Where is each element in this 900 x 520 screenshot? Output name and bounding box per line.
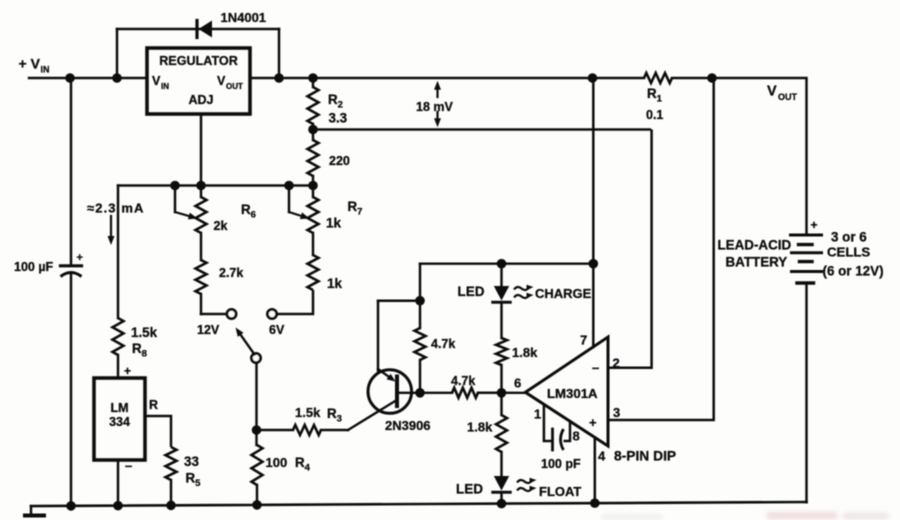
svg-text:–: –: [592, 360, 599, 375]
wire ADJ rail to R8: [117, 186, 120, 319]
svg-text:CELLS: CELLS: [827, 245, 870, 260]
svg-text:+: +: [77, 252, 83, 264]
wiper R6: [175, 186, 198, 220]
junction dot at VIN/diode branch: [112, 73, 122, 83]
svg-text:3: 3: [613, 405, 620, 420]
wire pin 3: [608, 78, 714, 420]
junction dot R6 wiper: [170, 181, 180, 191]
wiper R7: [289, 186, 310, 220]
svg-text:≈2.3 mA: ≈2.3 mA: [87, 201, 144, 216]
junction dot R1 right: [707, 73, 717, 83]
resistor R4 100: [252, 430, 263, 505]
watermark smudge: [601, 512, 889, 520]
arrow 18mV down: [436, 112, 438, 118]
svg-text:+: +: [811, 218, 818, 232]
resistor R3x 220: [308, 130, 319, 186]
junction dot op-amp output: [497, 388, 507, 398]
svg-text:8-PIN DIP: 8-PIN DIP: [614, 449, 676, 464]
svg-text:6: 6: [514, 376, 521, 391]
junction dot pin7 rail: [589, 259, 599, 269]
resistor R8 1.5k: [113, 318, 124, 378]
svg-text:+ V: + V: [19, 56, 41, 72]
svg-text:0.1: 0.1: [646, 108, 663, 122]
potentiometer R6 2k: [196, 186, 207, 261]
junction dot regulator Vout left: [274, 73, 284, 83]
node +VIN input wire: [29, 77, 147, 80]
switch pole: [251, 353, 260, 362]
terminal 6V: [267, 309, 276, 318]
wire pin 8: [564, 422, 571, 442]
LM334 box U3: [94, 378, 145, 460]
capacitor C2 100pF: [551, 429, 554, 450]
svg-text:LM301A: LM301A: [547, 386, 598, 401]
svg-text:3 or 6: 3 or 6: [831, 230, 867, 245]
wire diode loop left: [116, 29, 119, 78]
svg-text:1N4001: 1N4001: [221, 10, 267, 25]
svg-text:V: V: [152, 74, 161, 88]
resistor 1.8k upper: [496, 338, 507, 393]
resistor R1 0.1: [644, 73, 712, 83]
wire 100uF top: [70, 78, 73, 265]
resistor 1.8k lower: [496, 393, 507, 476]
wire emitter node up: [419, 264, 422, 301]
junction dot gnd pin4: [590, 498, 600, 508]
wire regulator output: [250, 77, 644, 80]
wire pin 2: [608, 130, 652, 368]
ground symbol: [25, 506, 44, 515]
svg-text:1.5k: 1.5k: [131, 325, 158, 340]
svg-text:1.5k: 1.5k: [295, 405, 321, 420]
svg-text:7: 7: [580, 333, 587, 348]
junction dot gnd 100uF: [66, 501, 76, 511]
svg-text:FLOAT: FLOAT: [539, 484, 581, 499]
resistor R5 33: [166, 447, 177, 505]
transistor Q1 2N3906 body: [368, 370, 412, 414]
wire ADJ rail: [118, 184, 313, 186]
battery BT1 plates: [791, 234, 822, 237]
resistor 4.7k horizontal: [452, 388, 502, 398]
svg-text:1: 1: [534, 407, 541, 422]
svg-text:–: –: [125, 458, 132, 473]
junction dot R7 wiper: [284, 181, 294, 191]
junction dot at VIN/100uF branch: [65, 73, 75, 83]
wire base lead: [397, 392, 452, 394]
svg-text:LED: LED: [458, 284, 485, 299]
wire Vout to battery: [712, 78, 807, 235]
arrow 18mV up: [436, 90, 438, 97]
svg-text:OUT: OUT: [226, 82, 243, 91]
junction dot gnd LM334: [113, 501, 123, 511]
wire LM334 R pin: [145, 416, 171, 447]
junction dot gnd R4: [252, 500, 262, 510]
svg-text:2: 2: [613, 356, 620, 371]
resistor R2 3.3: [308, 78, 319, 130]
junction dot 220 bottom: [308, 181, 318, 191]
svg-text:LM: LM: [110, 401, 128, 415]
regulator box U2: [147, 48, 250, 114]
svg-text:1.8k: 1.8k: [467, 420, 493, 435]
svg-text:12V: 12V: [197, 323, 220, 337]
capacitor C1 100uF: [61, 266, 82, 506]
svg-text:4.7k: 4.7k: [431, 337, 455, 351]
wire 18mV tap rail: [313, 128, 650, 131]
svg-text:CHARGE: CHARGE: [535, 286, 592, 301]
svg-text:1k: 1k: [326, 216, 342, 231]
wire pin 4: [594, 438, 597, 504]
svg-text:33: 33: [184, 454, 199, 469]
svg-text:2.7k: 2.7k: [219, 266, 243, 280]
svg-text:LEAD-ACID: LEAD-ACID: [718, 238, 792, 253]
wire regulator ADJ: [200, 114, 203, 186]
wire 2.7k to 12V terminal: [201, 313, 226, 316]
LED charge light arrows: [514, 287, 529, 290]
LED float light arrows: [517, 480, 532, 483]
wire R3 to collector: [348, 401, 396, 431]
svg-text:LED: LED: [456, 482, 483, 497]
svg-text:+: +: [589, 415, 597, 430]
wire LM334 bottom: [117, 460, 120, 506]
wire diode loop top-left: [117, 28, 199, 31]
junction dot gnd R5: [166, 501, 176, 511]
junction dot R2/220 tap: [308, 125, 318, 135]
svg-text:6V: 6V: [269, 323, 285, 337]
junction dot R2 top: [308, 73, 318, 83]
svg-text:100 pF: 100 pF: [541, 457, 581, 471]
junction dot LED charge top: [497, 259, 507, 269]
svg-text:V: V: [767, 84, 777, 100]
arrow 2.3mA current: [110, 216, 112, 236]
resistor 2.7k: [196, 260, 207, 314]
junction dot base/4.7k: [415, 388, 425, 398]
svg-text:100: 100: [266, 455, 288, 470]
resistor 4.7k vertical: [415, 301, 426, 393]
wire ground rail: [31, 502, 807, 506]
wire emitter node: [378, 299, 420, 302]
svg-text:4: 4: [598, 449, 606, 464]
junction dot emitter node: [415, 296, 425, 306]
diode D1 1N4001: [197, 21, 279, 38]
svg-text:R: R: [149, 398, 158, 412]
svg-text:IN: IN: [161, 82, 169, 91]
svg-text:IN: IN: [41, 65, 50, 75]
wire diode loop right: [278, 29, 281, 78]
svg-text:(6 or 12V): (6 or 12V): [823, 264, 884, 279]
transistor emitter with arrow: [378, 301, 396, 382]
resistor 1k lower: [308, 255, 319, 290]
svg-text:1k: 1k: [327, 276, 343, 291]
junction dot ADJ: [196, 181, 206, 191]
terminal 12V: [227, 309, 236, 318]
svg-text:REGULATOR: REGULATOR: [159, 54, 238, 68]
LED D2 charge: [493, 264, 510, 338]
svg-text:V: V: [217, 74, 226, 88]
wire pin 7 vertical: [592, 78, 595, 347]
LED D3 float: [493, 476, 510, 504]
junction dot gnd LED float: [497, 499, 507, 509]
svg-text:+: +: [124, 364, 131, 378]
svg-text:2k: 2k: [214, 219, 228, 233]
svg-text:ADJ: ADJ: [188, 93, 213, 107]
wire 1k to 6V terminal: [277, 290, 313, 314]
svg-text:BATTERY: BATTERY: [726, 255, 788, 270]
wire pin 1: [544, 405, 552, 442]
svg-text:100 µF: 100 µF: [14, 260, 54, 274]
wire LED rail: [420, 263, 593, 265]
svg-text:8: 8: [573, 429, 580, 444]
svg-text:18 mV: 18 mV: [416, 100, 453, 114]
op-amp U1 triangle: [525, 337, 608, 446]
transistor base bar: [395, 377, 399, 407]
resistor R3 1.5k: [257, 425, 349, 435]
svg-text:334: 334: [109, 415, 130, 429]
svg-text:4.7k: 4.7k: [451, 374, 475, 388]
svg-text:OUT: OUT: [778, 92, 798, 102]
potentiometer R7 1k: [308, 186, 319, 256]
wire battery bottom: [805, 283, 808, 502]
svg-text:2N3906: 2N3906: [385, 418, 431, 433]
wire output to apex: [502, 392, 526, 394]
switch arm S1: [241, 335, 255, 355]
wire switch pole down: [255, 363, 258, 430]
svg-text:1.8k: 1.8k: [512, 345, 538, 360]
junction dot Vout rail pin7: [588, 73, 598, 83]
svg-text:220: 220: [329, 154, 350, 168]
junction dot switch/R3/R4: [252, 425, 262, 435]
svg-text:3.3: 3.3: [329, 111, 348, 126]
